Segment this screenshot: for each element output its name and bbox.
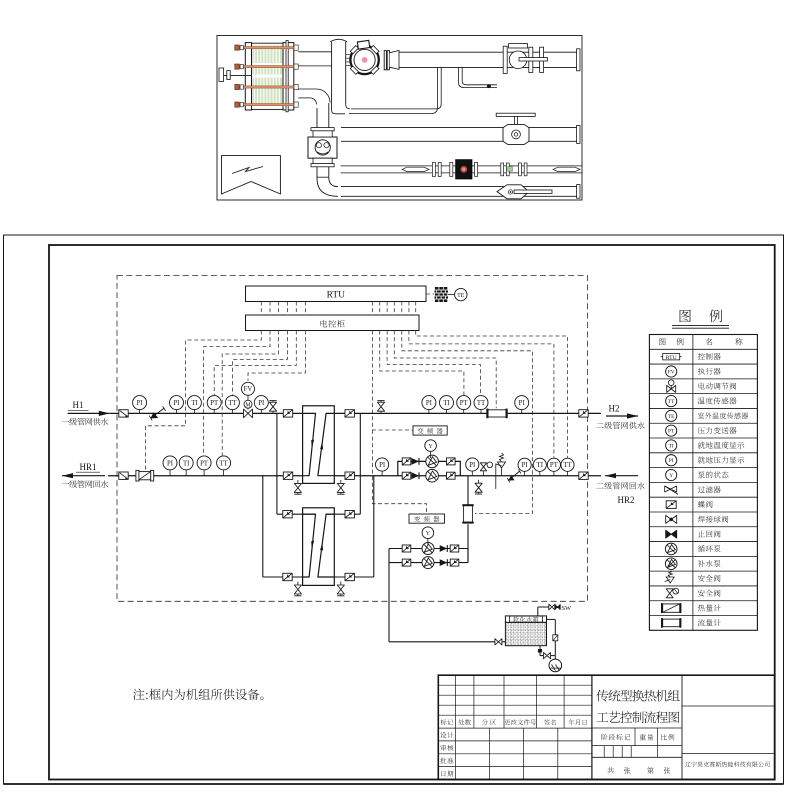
drain valves under HX2	[294, 582, 344, 596]
gauge PI supply 2	[170, 396, 184, 414]
svg-text:TI: TI	[183, 460, 190, 467]
strainer supply inlet	[119, 410, 128, 417]
gauge TI supply right	[440, 396, 454, 414]
transmitter TT supply	[225, 396, 239, 414]
flanged valve (top right)	[503, 44, 547, 74]
legend: local temp indicator	[666, 440, 745, 451]
butterfly sq before HX1	[283, 410, 292, 417]
title block frame	[438, 675, 774, 779]
circulation pump P2 line	[402, 469, 455, 482]
makeup pump branches	[389, 549, 468, 642]
legend: butterfly valve	[666, 501, 712, 509]
svg-text:TT: TT	[668, 399, 675, 405]
svg-text:HR1: HR1	[79, 462, 96, 472]
legend: actuator	[666, 366, 721, 377]
svg-text:PT: PT	[200, 460, 209, 467]
svg-text:TT: TT	[477, 400, 486, 407]
gauge PI return right	[518, 458, 531, 476]
plate heat exchanger (equipment view)	[235, 41, 298, 112]
legend: flow meter	[661, 618, 721, 628]
svg-text:PI: PI	[167, 460, 174, 467]
signature rows	[438, 728, 592, 779]
legend: temp sensor	[666, 395, 737, 406]
gauge TI return right	[533, 458, 546, 476]
softened water tank	[505, 616, 546, 646]
control valve FV	[242, 382, 255, 417]
svg-text:TT: TT	[219, 460, 228, 467]
sheet outer border	[4, 235, 784, 784]
legend title	[672, 310, 729, 329]
thin pipe w/ pump valve	[341, 160, 582, 179]
transmitter TT return right	[561, 458, 574, 476]
butterfly sq return before HX1	[283, 472, 292, 479]
svg-text:TI: TI	[443, 400, 450, 407]
svg-text:TI: TI	[191, 400, 198, 407]
makeup pump B1 line	[402, 543, 459, 555]
revision table	[438, 675, 592, 728]
legend: check valve	[666, 530, 721, 538]
control cabinet box	[246, 315, 420, 331]
transmitter PT supply right	[457, 396, 471, 414]
butterfly valve (equipment)	[496, 113, 535, 144]
butterfly sq return outlet	[579, 472, 588, 479]
signal lines: VFD feeds	[373, 302, 427, 514]
transmitter TT return	[217, 456, 231, 476]
svg-text:M: M	[245, 403, 250, 409]
gauge PI pump suction	[376, 458, 389, 476]
svg-text:PT: PT	[210, 400, 219, 407]
gauge PI supply 1	[133, 396, 147, 414]
VFD1 box	[413, 426, 447, 435]
legend: pressure transmitter	[666, 425, 737, 436]
legend: local pressure indicator	[666, 455, 745, 466]
svg-text:TE: TE	[668, 414, 675, 420]
svg-text:PI: PI	[137, 400, 144, 407]
legend: motor valve	[667, 380, 737, 392]
legend header	[659, 338, 742, 345]
transmitter TT supply right	[474, 396, 488, 414]
pump status Y2	[422, 527, 434, 545]
transmitter PT return	[197, 456, 211, 476]
title block right grid	[592, 675, 775, 779]
VFD2 box	[409, 514, 445, 523]
strainer return	[119, 472, 128, 479]
legend: safety valve 1	[665, 572, 721, 584]
butterfly sq return after HX1	[345, 472, 354, 479]
legend: strainer	[665, 486, 721, 494]
legend: controller	[661, 353, 721, 361]
small instrument pipe	[459, 67, 497, 88]
sheet inner border	[49, 245, 775, 780]
break symbol box	[222, 156, 281, 194]
svg-text:TT: TT	[228, 400, 237, 407]
water meter	[549, 656, 562, 672]
H2 outlet arrow + label	[596, 404, 644, 430]
svg-text:PT: PT	[460, 400, 469, 407]
svg-text:TE: TE	[457, 293, 465, 299]
inline pump (bottom)	[497, 185, 552, 199]
svg-text:PI: PI	[469, 462, 476, 469]
signal hatch block	[426, 287, 448, 302]
svg-text:FV: FV	[668, 369, 675, 375]
svg-text:Y: Y	[426, 530, 431, 537]
return pipe main line	[108, 475, 601, 477]
svg-text:TI: TI	[537, 462, 544, 469]
heat meter	[486, 409, 507, 419]
makeup riser lower	[467, 524, 469, 562]
gauge PI supply right	[422, 396, 436, 414]
svg-text:PT: PT	[550, 462, 559, 469]
legend: outdoor temp sensor	[666, 410, 749, 421]
svg-text:Y: Y	[669, 473, 673, 479]
svg-text:TI: TI	[669, 443, 674, 449]
circulation pump P1 line	[402, 455, 455, 468]
svg-text:PI: PI	[522, 462, 529, 469]
lower riser and elbow	[317, 103, 338, 196]
bottom pipe	[341, 185, 580, 199]
outdoor temp sensor TE	[448, 288, 467, 300]
HX2 supply branch	[277, 413, 316, 518]
legend table grid	[649, 335, 757, 631]
svg-text:PI: PI	[173, 400, 180, 407]
makeup connection riser	[467, 476, 469, 505]
drop pipe	[349, 67, 441, 113]
legend: makeup pump	[665, 558, 720, 570]
svg-text:PI: PI	[669, 458, 674, 464]
gauge PI supply outlet	[515, 396, 529, 414]
butterfly sq supply outlet	[579, 410, 588, 417]
check valve return	[507, 469, 521, 482]
three-way valve (equipment)	[308, 128, 337, 167]
svg-text:RTU: RTU	[666, 355, 677, 361]
makeup flow meter	[462, 504, 473, 523]
svg-text:RTU: RTU	[327, 290, 346, 300]
signal lines: left cascade	[146, 302, 306, 470]
signal lines: right cascade	[380, 302, 568, 514]
motorized valve return	[136, 470, 154, 481]
vertical pipe riser	[330, 39, 350, 114]
heat exchanger HX1	[303, 406, 335, 484]
svg-text:SW: SW	[562, 605, 573, 612]
HR2 inlet arrow + label	[596, 473, 644, 505]
drain valves under HX1	[294, 480, 344, 494]
gauge PI return	[163, 456, 177, 476]
svg-text:TT: TT	[563, 462, 572, 469]
svg-text:HR2: HR2	[617, 495, 634, 505]
svg-text:PI: PI	[519, 400, 526, 407]
machine scope dashed boundary	[117, 276, 588, 602]
circulation pump branch	[398, 461, 461, 475]
butterfly sq after HX1	[345, 410, 354, 417]
soft water inlet SW	[538, 604, 572, 616]
HX nozzle pipes	[298, 52, 331, 105]
legend: heat meter	[661, 603, 721, 613]
gauge PI pump discharge	[466, 458, 479, 476]
vent valve supply right	[377, 401, 384, 414]
makeup pump B2 line	[402, 557, 459, 569]
legend: pump status	[666, 469, 729, 480]
gauge PI supply 3	[254, 396, 268, 414]
safety valve w/ spring	[496, 453, 506, 489]
controller RTU box	[246, 286, 427, 302]
svg-text:Y: Y	[428, 443, 433, 450]
gauge TI return	[179, 456, 193, 476]
HX2 return branch	[263, 476, 309, 581]
transmitter PT return right	[547, 458, 560, 476]
relief valve small	[480, 462, 492, 476]
heat exchanger HX2	[303, 508, 335, 586]
svg-text:PI: PI	[258, 400, 265, 407]
drawing title	[596, 690, 679, 723]
butterfly valve supply	[149, 406, 165, 420]
HR1 outlet arrow + label	[62, 462, 109, 488]
company name	[685, 761, 770, 767]
svg-text:H1: H1	[73, 400, 84, 410]
svg-text:PT: PT	[668, 429, 675, 435]
support bracket	[219, 68, 252, 81]
HX2 secondary supply riser	[326, 413, 360, 518]
H1 inlet arrow + label	[62, 400, 110, 425]
gauge TI supply	[187, 396, 201, 414]
pump status Y1	[425, 440, 437, 458]
top discharge pipe	[399, 49, 580, 71]
middle pipe	[341, 125, 580, 143]
supply pipe main line	[110, 412, 601, 414]
pump (equipment view)	[346, 40, 399, 74]
vent valve supply left	[269, 401, 276, 414]
drain valve after pumps	[475, 480, 482, 494]
HX2 secondary return riser	[318, 476, 374, 581]
legend: welded ball valve	[666, 515, 729, 523]
svg-text:H2: H2	[609, 404, 620, 414]
transmitter PT supply	[207, 396, 221, 414]
top equipment drawing frame	[217, 36, 582, 201]
svg-text:PI: PI	[379, 462, 386, 469]
tank drain to meter	[538, 619, 558, 658]
tank suction line	[389, 639, 505, 645]
note text	[133, 689, 263, 700]
legend: circulation pump	[665, 543, 720, 555]
svg-text:FV: FV	[244, 386, 253, 393]
svg-text:PI: PI	[426, 400, 433, 407]
legend: safety valve 2	[666, 588, 720, 598]
